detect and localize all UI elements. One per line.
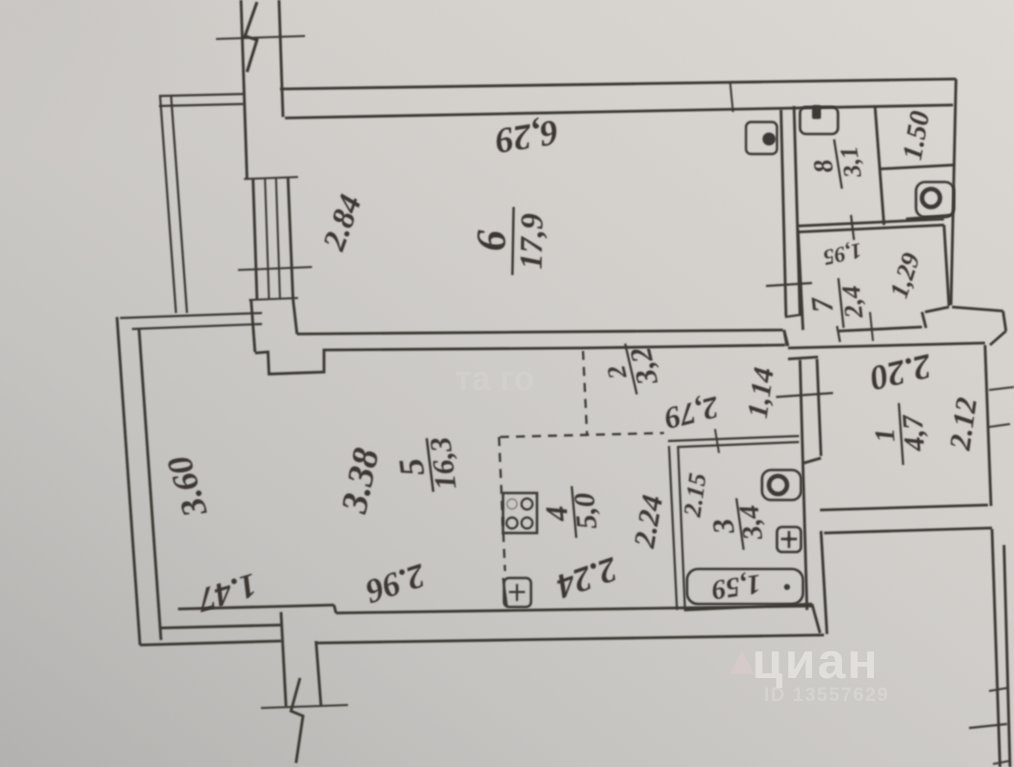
svg-text:циан: циан [752,633,879,689]
svg-text:та го: та го [455,360,535,398]
svg-text:ID 13557629: ID 13557629 [764,685,889,706]
